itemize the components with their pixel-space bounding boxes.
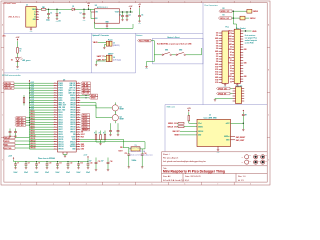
svg-text:1: 1 — [20, 1, 21, 3]
svg-text:IO11: IO11 — [215, 69, 218, 71]
svg-text:R: R — [99, 133, 100, 135]
svg-text:USB_DP: USB_DP — [82, 83, 88, 85]
svg-text:SWD_RESET: SWD_RESET — [236, 137, 245, 139]
svg-text:+3.3V: +3.3V — [30, 94, 34, 96]
svg-text:+3.3V: +3.3V — [30, 106, 34, 108]
svg-text:QSPI_SD1: QSPI_SD1 — [16, 120, 23, 122]
svg-text:IO7: IO7 — [216, 56, 219, 58]
svg-text:R7: R7 — [245, 114, 247, 116]
svg-text:GPIO0: GPIO0 — [30, 111, 35, 113]
svg-text:Id: 1/1: Id: 1/1 — [238, 180, 244, 182]
svg-text:R1: R1 — [20, 49, 22, 51]
svg-text:GPIO6: GPIO6 — [30, 126, 35, 128]
svg-text:USB_DM: USB_DM — [82, 85, 89, 87]
svg-text:C8: C8 — [28, 163, 30, 165]
svg-text:J1: J1 — [26, 4, 28, 6]
svg-text:SWCLK_3V3: SWCLK_3V3 — [168, 127, 177, 129]
svg-text:D+: D+ — [34, 14, 36, 16]
svg-text:XIN: XIN — [73, 134, 75, 136]
svg-text:GPIO18: GPIO18 — [70, 127, 75, 129]
svg-text:RUN: RUN — [229, 57, 232, 59]
svg-text:SWD conn: SWD conn — [167, 107, 176, 109]
svg-text:XIN: XIN — [81, 132, 83, 134]
svg-text:VBUS: VBUS — [32, 9, 36, 11]
svg-text:IO0: IO0 — [216, 33, 219, 35]
svg-text:IO2: IO2 — [216, 40, 219, 42]
svg-text:VOUT: VOUT — [115, 12, 119, 14]
svg-text:I26: I26 — [230, 55, 232, 57]
svg-text:TESTEN: TESTEN — [70, 146, 76, 148]
svg-text:C12: C12 — [70, 163, 73, 165]
svg-text:C2: C2 — [80, 12, 82, 14]
svg-text:IO15: IO15 — [215, 82, 218, 84]
svg-text:GND: GND — [229, 63, 232, 65]
svg-text:I27: I27 — [230, 52, 232, 54]
svg-text:SWD: SWD — [81, 144, 84, 146]
svg-text:1: 1 — [20, 184, 21, 186]
svg-text:GPIO10: GPIO10 — [30, 136, 35, 138]
svg-text:+1.1V: +1.1V — [30, 96, 34, 98]
svg-text:C6: C6 — [141, 14, 143, 16]
svg-text:I16: I16 — [230, 81, 232, 83]
svg-text:I21: I21 — [230, 65, 232, 67]
svg-text:GPIO1: GPIO1 — [58, 114, 63, 116]
svg-text:6: 6 — [184, 1, 185, 3]
svg-text:GND: GND — [215, 38, 218, 40]
svg-text:nRST: nRST — [226, 123, 230, 125]
svg-text:IO10: IO10 — [215, 66, 218, 68]
svg-text:100nF: 100nF — [86, 172, 90, 174]
svg-text:IO1: IO1 — [216, 35, 219, 37]
svg-text:VBUS: VBUS — [228, 31, 232, 33]
svg-text:IOVDD: IOVDD — [58, 83, 63, 85]
svg-text:3V3: 3V3 — [229, 41, 232, 43]
svg-text:IOVDD: IOVDD — [58, 85, 63, 87]
svg-text:C9: C9 — [38, 163, 40, 165]
svg-text:GPIO28: GPIO28 — [70, 102, 75, 104]
svg-text:RUN: RUN — [81, 136, 84, 138]
svg-text:GND_DET: GND_DET — [172, 131, 179, 133]
svg-text:File: pico_dbg.sch: File: pico_dbg.sch — [163, 157, 178, 159]
svg-text:USB_B_Micro: USB_B_Micro — [8, 16, 20, 19]
svg-text:+3.3V: +3.3V — [8, 155, 12, 157]
svg-text:RUN: RUN — [4, 144, 7, 146]
svg-text:I18: I18 — [230, 73, 232, 75]
svg-text:gitnub.com/me/pico-dbg repo: gitnub.com/me/pico-dbg repo — [130, 153, 153, 156]
svg-text:+5V: +5V — [87, 3, 90, 5]
svg-text:SWDIO: SWDIO — [4, 141, 10, 143]
svg-text:(3.3V logic): (3.3V logic) — [113, 59, 122, 61]
svg-text:I17: I17 — [230, 79, 232, 81]
svg-text:IO5: IO5 — [216, 48, 219, 50]
svg-text:GPIO6: GPIO6 — [58, 127, 63, 129]
svg-text:C15: C15 — [125, 153, 128, 155]
svg-text:D1: D1 — [72, 6, 74, 8]
svg-text:GPIO26: GPIO26 — [70, 107, 75, 109]
svg-text:SWDIO_3V3: SWDIO_3V3 — [220, 11, 229, 13]
svg-text:IO8: IO8 — [216, 59, 219, 61]
svg-text:+3.3V: +3.3V — [129, 6, 133, 8]
svg-text:GPIO12: GPIO12 — [58, 141, 63, 143]
svg-text:XOUT: XOUT — [71, 136, 75, 138]
svg-text:+3.3V: +3.3V — [16, 37, 20, 39]
svg-text:+3.3V: +3.3V — [30, 92, 34, 94]
svg-text:RUN: RUN — [72, 139, 75, 141]
svg-text:C13: C13 — [80, 163, 83, 165]
svg-text:GND: GND — [244, 49, 247, 51]
svg-text:VSYS: VSYS — [228, 33, 232, 35]
svg-text:12MHz: 12MHz — [132, 160, 137, 162]
svg-text:GPIO13: GPIO13 — [58, 144, 63, 146]
svg-text:UART_TX: UART_TX — [97, 55, 106, 58]
svg-text:QSPI_SD0: QSPI_SD0 — [68, 93, 75, 95]
svg-text:MMBT: MMBT — [120, 109, 124, 111]
svg-text:J3: J3 — [113, 43, 115, 45]
svg-text:IOVDD: IOVDD — [58, 93, 63, 95]
svg-text:GPIO3: GPIO3 — [30, 118, 35, 120]
svg-text:100nF: 100nF — [34, 172, 38, 174]
svg-text:ID: ID — [34, 17, 35, 19]
svg-text:GPIO18: GPIO18 — [82, 127, 87, 129]
svg-text:GPIO9: GPIO9 — [58, 134, 63, 136]
svg-text:QSPI_SS: QSPI_SS — [16, 118, 22, 120]
svg-text:VBUS_DET: VBUS_DET — [4, 88, 12, 90]
svg-text:R2: R2 — [223, 8, 225, 10]
svg-text:LED_green: LED_green — [22, 60, 30, 62]
svg-text:GND: GND — [72, 149, 75, 151]
svg-text:GND: GND — [83, 19, 86, 21]
svg-text:GPIO5: GPIO5 — [30, 123, 35, 125]
svg-text:DVDD: DVDD — [58, 100, 62, 102]
svg-text:JP: JP — [242, 156, 244, 158]
svg-text:6: 6 — [184, 184, 185, 186]
svg-text:link: gitnub.com/somebody/pico: link: gitnub.com/somebody/pico-debugger-… — [163, 160, 206, 163]
svg-text:1uF: 1uF — [89, 161, 92, 163]
svg-text:QSPI_SD3: QSPI_SD3 — [16, 125, 23, 127]
svg-text:GPIO2: GPIO2 — [58, 117, 63, 119]
svg-text:GPIO22: GPIO22 — [82, 117, 87, 119]
svg-text:QSPI_SD2: QSPI_SD2 — [16, 122, 23, 124]
svg-text:GPIO8: GPIO8 — [58, 132, 63, 134]
svg-text:GPIO5: GPIO5 — [58, 124, 63, 126]
svg-text:SWD_GDET: SWD_GDET — [236, 140, 245, 142]
svg-text:Licence: CC-BY-SA: Licence: CC-BY-SA — [130, 150, 146, 153]
svg-text:Colour: Purple: Colour: Purple — [130, 147, 142, 149]
svg-text:GND: GND — [215, 77, 218, 79]
svg-text:100nF: 100nF — [76, 172, 80, 174]
svg-text:QSPI_CLK: QSPI_CLK — [68, 90, 76, 92]
svg-text:GPIO7: GPIO7 — [30, 128, 35, 130]
svg-text:GPIO13: GPIO13 — [30, 143, 35, 145]
svg-text:GPIO17: GPIO17 — [70, 129, 75, 131]
svg-text:LED: LED — [2, 36, 6, 38]
svg-text:GPIO15: GPIO15 — [30, 148, 35, 150]
svg-text:GPIO10: GPIO10 — [58, 136, 63, 138]
svg-text:SW2: SW2 — [179, 50, 182, 52]
svg-text:USB_DP: USB_DP — [4, 85, 10, 87]
svg-text:GPIO16: GPIO16 — [70, 132, 75, 134]
svg-text:GPIO9: GPIO9 — [30, 133, 35, 135]
svg-text:GND: GND — [145, 68, 148, 70]
svg-text:I19: I19 — [230, 71, 232, 73]
svg-text:R3: R3 — [223, 15, 225, 17]
svg-text:Q1: Q1 — [120, 107, 122, 109]
svg-text:SWCLK: SWCLK — [250, 18, 257, 20]
svg-text:1uF: 1uF — [101, 161, 104, 163]
svg-text:IO13: IO13 — [215, 74, 218, 76]
svg-text:QSPI_SS: QSPI_SS — [82, 88, 88, 90]
svg-text:+3.3V: +3.3V — [30, 89, 34, 91]
svg-text:B: B — [2, 70, 3, 72]
svg-text:GND: GND — [106, 28, 109, 30]
svg-text:100nF: 100nF — [66, 172, 70, 174]
svg-text:USB_DM: USB_DM — [4, 83, 11, 85]
svg-text:GPIO21: GPIO21 — [82, 120, 87, 122]
svg-text:C10: C10 — [49, 163, 52, 165]
svg-text:+3.3V: +3.3V — [187, 108, 191, 110]
svg-text:SWDIO_3V3: SWDIO_3V3 — [168, 123, 177, 125]
svg-text:GPIO17: GPIO17 — [82, 129, 87, 131]
svg-text:QSPI_CLK: QSPI_CLK — [82, 90, 90, 92]
svg-text:GPIO11: GPIO11 — [30, 138, 35, 140]
svg-text:GPIO2: GPIO2 — [30, 116, 35, 118]
svg-text:use proper Pico: use proper Pico — [245, 38, 257, 40]
svg-text:GPIO23: GPIO23 — [70, 114, 75, 116]
svg-text:Pico Connectors: Pico Connectors — [205, 4, 218, 7]
svg-text:GND: GND — [244, 63, 247, 65]
svg-text:C7: C7 — [17, 163, 19, 165]
svg-text:R: R — [103, 133, 104, 135]
svg-text:+3.3V: +3.3V — [30, 82, 34, 84]
svg-text:GPIO15: GPIO15 — [58, 149, 63, 151]
svg-text:IOVDD: IOVDD — [58, 95, 63, 97]
svg-text:DVDD: DVDD — [58, 97, 62, 99]
svg-text:GPIO8: GPIO8 — [30, 131, 35, 133]
svg-text:+1.1V: +1.1V — [30, 99, 34, 101]
svg-text:5V1: 5V1 — [59, 21, 62, 23]
svg-text:100nF: 100nF — [45, 172, 49, 174]
svg-text:RP2040 microcontroller: RP2040 microcontroller — [2, 74, 21, 77]
svg-text:GPIO19: GPIO19 — [70, 124, 75, 126]
svg-text:GND: GND — [16, 68, 19, 70]
svg-text:SW1: SW1 — [165, 50, 168, 52]
svg-text:Buttons: Buttons — [136, 34, 142, 37]
svg-text:C1: C1 — [50, 12, 52, 14]
svg-text:100nF: 100nF — [13, 172, 17, 174]
svg-text:XIN: XIN — [120, 147, 123, 149]
svg-text:GPIO0: GPIO0 — [58, 112, 63, 114]
svg-text:+1.1V: +1.1V — [84, 155, 88, 157]
svg-text:IO9: IO9 — [216, 61, 219, 63]
svg-text:XOUT: XOUT — [118, 151, 122, 153]
svg-text:GND: GND — [138, 23, 141, 25]
svg-text:Sheet: /: Sheet: / — [163, 153, 170, 156]
svg-text:D3: D3 — [11, 59, 13, 61]
svg-text:JP: JP — [242, 162, 244, 164]
svg-text:TEST: TEST — [81, 146, 85, 148]
svg-text:IOVDD: IOVDD — [58, 88, 63, 90]
svg-text:I22: I22 — [230, 60, 232, 62]
svg-text:GND: GND — [30, 31, 33, 33]
svg-text:XOUT: XOUT — [81, 134, 85, 136]
svg-text:GPIO22: GPIO22 — [70, 117, 75, 119]
svg-text:GND: GND — [229, 76, 232, 78]
svg-text:MMBT: MMBT — [120, 119, 124, 121]
svg-text:GPIO25_LED: GPIO25_LED — [218, 88, 227, 90]
svg-text:U2: U2 — [95, 5, 97, 7]
svg-text:SWCLK_3V3: SWCLK_3V3 — [220, 18, 229, 20]
svg-text:GPIO20: GPIO20 — [82, 122, 87, 124]
svg-text:VBUS: VBUS — [252, 31, 256, 33]
svg-text:GND: GND — [33, 19, 36, 21]
svg-text:GPIO21: GPIO21 — [70, 119, 75, 121]
svg-text:QSPI_SD0: QSPI_SD0 — [82, 93, 89, 95]
svg-text:+3.3V: +3.3V — [30, 109, 34, 111]
svg-text:GPIO1: GPIO1 — [30, 114, 35, 116]
svg-text:(USB 5V): (USB 5V) — [113, 45, 120, 47]
svg-text:1k: 1k — [20, 51, 22, 53]
svg-text:B: B — [268, 70, 269, 72]
svg-text:I20: I20 — [230, 68, 232, 70]
svg-text:3V3E: 3V3E — [229, 39, 232, 41]
svg-text:4: 4 — [119, 1, 120, 3]
svg-text:USB_DP: USB_DP — [70, 83, 76, 85]
svg-text:4: 4 — [119, 184, 120, 186]
svg-text:100nF: 100nF — [24, 172, 28, 174]
svg-text:KiCad E.D.A. kicad (5.1.10)-1: KiCad E.D.A. kicad (5.1.10)-1 — [163, 179, 190, 182]
svg-text:+3.3V: +3.3V — [30, 87, 34, 89]
svg-text:GPIO25: GPIO25 — [70, 110, 75, 112]
svg-text:VREG_OUT: VREG_OUT — [58, 105, 66, 107]
svg-text:Rev: 1.0: Rev: 1.0 — [238, 176, 246, 178]
svg-text:GND: GND — [229, 49, 232, 51]
svg-text:PICO_PROBE: PICO_PROBE — [139, 40, 149, 42]
svg-text:GND: GND — [81, 149, 84, 151]
svg-text:Q2: Q2 — [120, 116, 122, 118]
svg-text:EN: EN — [95, 18, 97, 20]
svg-text:Size: A4: Size: A4 — [163, 175, 171, 178]
svg-text:+3.3V: +3.3V — [30, 101, 34, 103]
svg-text:RESET: RESET — [174, 135, 179, 137]
svg-text:Pico: Pico — [226, 27, 229, 29]
svg-text:SWDIO: SWDIO — [253, 11, 259, 13]
svg-text:+3.3V: +3.3V — [30, 84, 34, 86]
svg-text:IOVDD: IOVDD — [58, 90, 63, 92]
svg-text:VIN: VIN — [95, 12, 98, 14]
svg-text:GND: GND — [215, 64, 218, 66]
svg-text:GPIO20: GPIO20 — [70, 122, 75, 124]
svg-text:GPIO3: GPIO3 — [58, 119, 63, 121]
svg-text:IO3: IO3 — [216, 43, 219, 45]
svg-text:BOOTSEL: BOOTSEL — [4, 148, 11, 150]
svg-text:GPIO27: GPIO27 — [70, 105, 75, 107]
svg-text:GND: GND — [229, 36, 232, 38]
svg-text:Optional? Connector: Optional? Connector — [92, 34, 109, 37]
svg-text:Date: 2021-05-29: Date: 2021-05-29 — [185, 175, 201, 178]
svg-text:GPIO19: GPIO19 — [82, 124, 87, 126]
svg-text:+5V: +5V — [138, 4, 141, 6]
svg-text:VREG_IN: VREG_IN — [58, 102, 64, 104]
svg-text:GND: GND — [244, 76, 247, 78]
svg-text:GPIO12: GPIO12 — [30, 140, 35, 142]
svg-text:I28: I28 — [230, 47, 232, 49]
svg-text:QSPI_SS: QSPI_SS — [69, 88, 75, 90]
svg-text:D2: D2 — [59, 12, 61, 14]
svg-text:GND: GND — [215, 51, 218, 53]
svg-text:SWCLK: SWCLK — [4, 137, 10, 139]
svg-text:J2: J2 — [209, 114, 211, 116]
svg-text:Mini Raspberry Pi Pico Debugge: Mini Raspberry Pi Pico Debugger Thing — [163, 170, 225, 174]
svg-text:R: R — [94, 133, 95, 135]
svg-text:GPIO29: GPIO29 — [70, 100, 75, 102]
svg-text:GPIO23: GPIO23 — [82, 115, 87, 117]
svg-text:IO12: IO12 — [215, 72, 218, 74]
svg-text:100nF: 100nF — [55, 172, 59, 174]
svg-text:+1.1V: +1.1V — [30, 104, 34, 106]
svg-text:IO6: IO6 — [216, 53, 219, 55]
svg-text:USB_DM: USB_DM — [69, 85, 76, 87]
svg-text:C3: C3 — [119, 14, 121, 16]
svg-text:C11: C11 — [59, 163, 62, 165]
svg-text:GND: GND — [198, 134, 201, 136]
svg-text:USB and Power: USB and Power — [3, 2, 17, 5]
svg-text:USB_VDD: USB_VDD — [58, 107, 65, 109]
svg-text:GPIO11: GPIO11 — [58, 139, 63, 141]
svg-text:GPIO7: GPIO7 — [58, 129, 63, 131]
